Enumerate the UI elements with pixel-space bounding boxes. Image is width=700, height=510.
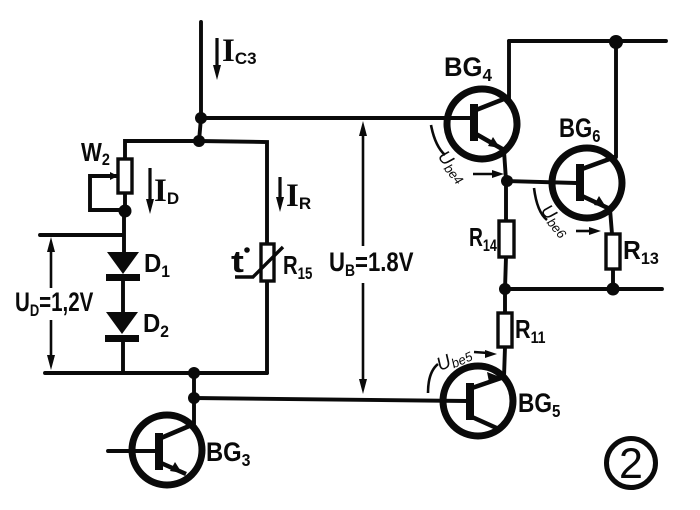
wire: R11 top lead: [503, 289, 507, 313]
wire: left column to D1: [122, 211, 126, 252]
label BG5: [518, 388, 560, 421]
label BG4: [444, 51, 492, 85]
measurement UD line with arrows: [50, 244, 53, 364]
wire: W2 wiper bracket: [90, 176, 122, 210]
svg-text:UD=1,2V: UD=1,2V: [15, 287, 93, 320]
transistor BG5: [443, 366, 513, 436]
wire: R15 bottom lead: [265, 281, 269, 373]
wire: D1 to D2: [121, 281, 125, 312]
svg-text:t: t: [231, 245, 244, 279]
diode D2: [105, 312, 139, 342]
wire: R14 bottom lead: [505, 257, 506, 289]
wire: collector drop to BG3: [192, 373, 196, 424]
wire: base rail from node to BG4 base: [201, 116, 470, 120]
label D1: [144, 249, 170, 281]
wire: rail to BG5 base: [194, 398, 467, 401]
resistor R11: [498, 313, 512, 347]
label UB=1.8V: [329, 248, 414, 280]
node: bottom-left rail junction: [188, 367, 200, 379]
svg-text:UB=1.8V: UB=1.8V: [329, 248, 414, 280]
label W2: [81, 138, 110, 169]
wire: BG6 emitter to R13: [610, 209, 612, 234]
label R11: [515, 315, 546, 347]
node: R14/R11 junction: [499, 283, 511, 295]
wire: BG4 emitter lead: [504, 151, 506, 180]
wire: top-right supply rail: [509, 39, 666, 43]
wire: IC3 feed vertical: [199, 22, 203, 117]
node: BG4 emitter junction: [501, 175, 513, 187]
Ube6 annotation arc and arrow: [534, 188, 601, 242]
wire: junction link: [199, 118, 201, 141]
wire: BG6 collector lead: [614, 42, 618, 157]
node: top rail junction: [609, 35, 623, 49]
transistor BG6: [552, 148, 622, 218]
potentiometer W2: [110, 159, 132, 193]
current arrow IR: [276, 177, 284, 212]
node: W2 bottom junction: [119, 205, 132, 218]
wire: node to R15 top lead: [199, 141, 267, 244]
wire: bottom-left rail: [45, 371, 267, 375]
measurement UB line with arrows: [362, 128, 365, 388]
wire: lower-right rail: [505, 287, 662, 291]
label R13: [623, 236, 659, 268]
wire: BG4 collector lead: [507, 41, 511, 99]
wire: node to W2 top corner: [125, 141, 199, 160]
label BG3: [206, 438, 250, 471]
wire: R13 bottom lead: [611, 269, 615, 289]
diode D1: [106, 252, 140, 281]
label R14: [469, 222, 497, 255]
wire: node to BG6 base: [506, 181, 576, 183]
svg-text:2: 2: [619, 440, 643, 488]
wire: R11 bottom lead to BG5 collector: [504, 347, 505, 377]
label D2: [143, 309, 169, 341]
wire: D2 to bottom rail: [121, 342, 125, 373]
Ube4 annotation arc and arrow: [431, 125, 504, 187]
resistor R14: [499, 221, 514, 257]
node: IC3/base rail junction: [195, 112, 207, 124]
current arrow ID: [146, 168, 154, 214]
resistor R13: [606, 234, 620, 269]
wire: left horizontal at diode top: [40, 233, 123, 237]
resistor R15 (thermistor): [235, 244, 283, 281]
current arrow IC3: [213, 38, 221, 80]
label BG6: [559, 114, 600, 146]
label R15: [283, 251, 313, 284]
transistor BG3: [132, 415, 202, 485]
wire: W2 bottom lead: [123, 193, 127, 211]
figure number circled 2: [607, 439, 656, 489]
node: R13 bottom junction: [607, 283, 620, 296]
node: BG3 collector junction: [188, 392, 200, 404]
Ube5 annotation arc and arrow: [428, 342, 497, 393]
node: W2/R15 branch junction: [193, 135, 205, 147]
wire: R14 top lead: [504, 181, 508, 221]
label UD=1,2V: [15, 287, 93, 320]
wire: BG3 base lead: [108, 449, 157, 453]
transistor BG4: [447, 89, 517, 159]
label t deg: [231, 245, 244, 279]
